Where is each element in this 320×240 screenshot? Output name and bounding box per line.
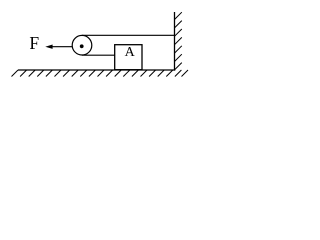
svg-text:F: F	[29, 33, 39, 53]
svg-text:A: A	[125, 45, 136, 60]
